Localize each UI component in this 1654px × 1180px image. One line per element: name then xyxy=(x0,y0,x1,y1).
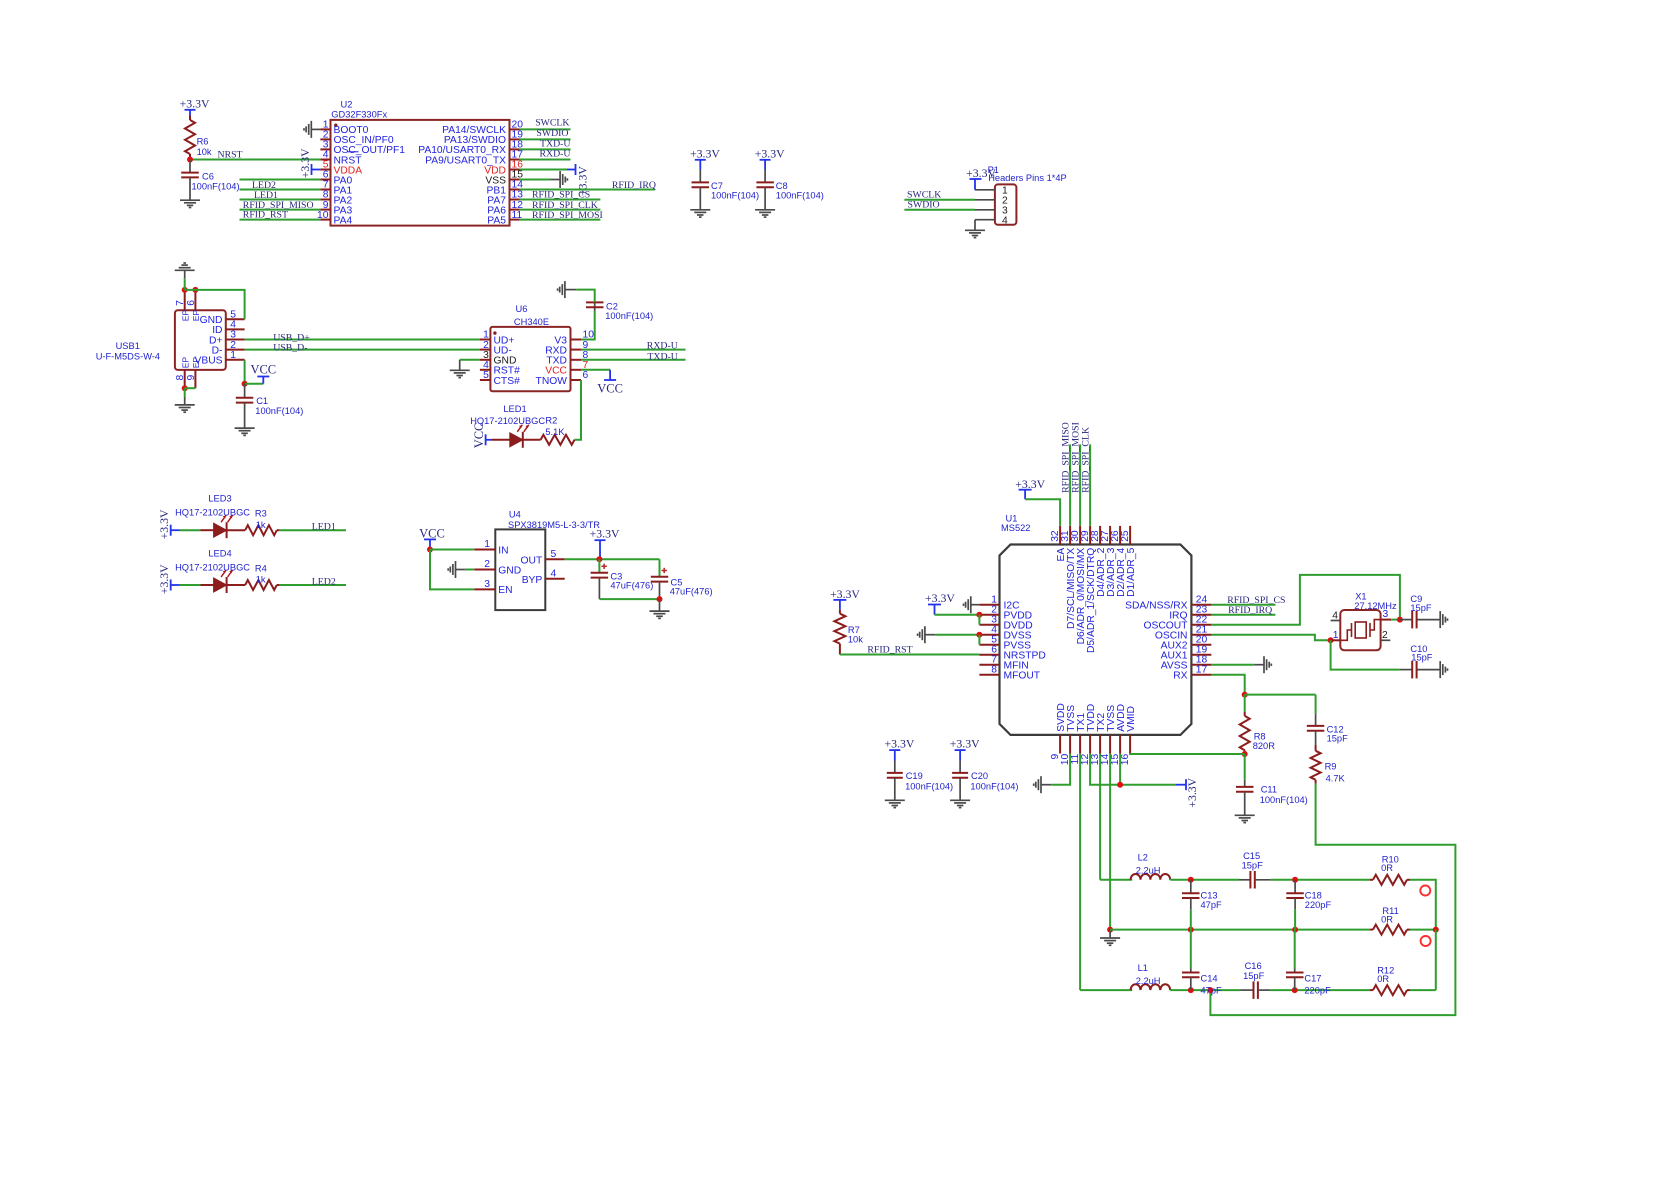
svg-text:15pF: 15pF xyxy=(1242,861,1264,871)
svg-text:R6: R6 xyxy=(197,136,209,146)
svg-text:2.2uH: 2.2uH xyxy=(1136,866,1161,876)
svg-text:EP: EP xyxy=(191,310,201,322)
svg-text:SWDIO: SWDIO xyxy=(908,200,940,211)
svg-text:C19: C19 xyxy=(906,771,923,781)
svg-text:5: 5 xyxy=(483,370,489,381)
svg-text:VCC: VCC xyxy=(597,382,623,396)
svg-text:U-F-M5DS-W-4: U-F-M5DS-W-4 xyxy=(96,352,160,362)
svg-text:0R: 0R xyxy=(1381,863,1393,873)
svg-text:+3.3V: +3.3V xyxy=(884,737,914,751)
svg-text:2: 2 xyxy=(484,559,490,570)
svg-text:GND: GND xyxy=(498,565,521,576)
svg-text:PA5: PA5 xyxy=(487,215,506,226)
svg-text:HQ17-2102UBGC: HQ17-2102UBGC xyxy=(175,508,250,518)
svg-text:RFID_IRQ: RFID_IRQ xyxy=(1228,605,1272,616)
svg-text:USB_D-: USB_D- xyxy=(273,343,307,354)
svg-text:1k: 1k xyxy=(256,575,266,585)
svg-text:+3.3V: +3.3V xyxy=(925,591,955,605)
svg-text:SPX3819M5-L-3-3/TR: SPX3819M5-L-3-3/TR xyxy=(508,520,600,530)
svg-text:100nF(104): 100nF(104) xyxy=(905,781,953,791)
svg-text:5: 5 xyxy=(551,549,557,560)
svg-text:100nF(104): 100nF(104) xyxy=(192,182,240,192)
svg-text:C7: C7 xyxy=(711,181,723,191)
svg-text:6: 6 xyxy=(186,300,197,306)
svg-text:L1: L1 xyxy=(1138,963,1148,973)
svg-text:BYP: BYP xyxy=(522,575,543,586)
svg-text:4: 4 xyxy=(1002,216,1008,227)
svg-text:10k: 10k xyxy=(197,147,212,157)
svg-text:+3.3V: +3.3V xyxy=(1015,477,1045,491)
svg-text:LED2: LED2 xyxy=(312,576,336,587)
svg-text:EP: EP xyxy=(180,357,190,369)
svg-text:+3.3V: +3.3V xyxy=(690,146,720,160)
svg-text:6: 6 xyxy=(583,370,589,381)
svg-text:15pF: 15pF xyxy=(1243,971,1265,981)
svg-text:GD32F330Fx: GD32F330Fx xyxy=(331,109,387,119)
svg-text:R2: R2 xyxy=(545,415,557,425)
svg-text:4: 4 xyxy=(1332,611,1338,622)
svg-text:C6: C6 xyxy=(202,171,214,181)
svg-text:27.12MHz: 27.12MHz xyxy=(1354,601,1397,611)
svg-text:0R: 0R xyxy=(1377,974,1389,984)
svg-text:0R: 0R xyxy=(1381,915,1393,925)
svg-text:R4: R4 xyxy=(255,563,267,573)
svg-text:HQ17-2102UBGC: HQ17-2102UBGC xyxy=(470,416,545,426)
svg-text:2.2uH: 2.2uH xyxy=(1136,976,1161,986)
svg-text:EN: EN xyxy=(498,585,512,596)
svg-text:EP: EP xyxy=(180,310,190,322)
svg-text:47pF: 47pF xyxy=(1201,986,1223,996)
svg-text:NRST: NRST xyxy=(218,149,243,160)
svg-text:100nF(104): 100nF(104) xyxy=(776,191,824,201)
svg-text:100nF(104): 100nF(104) xyxy=(970,781,1018,791)
svg-text:5.1K: 5.1K xyxy=(545,427,565,437)
svg-text:TNOW: TNOW xyxy=(536,376,568,387)
svg-text:17: 17 xyxy=(1196,665,1208,676)
svg-text:+3.3V: +3.3V xyxy=(950,737,980,751)
svg-text:+3.3V: +3.3V xyxy=(966,166,996,180)
svg-text:U2: U2 xyxy=(341,99,353,109)
svg-text:L2: L2 xyxy=(1138,853,1148,863)
svg-text:15pF: 15pF xyxy=(1327,734,1349,744)
svg-text:D1/ADR_5: D1/ADR_5 xyxy=(1126,547,1137,596)
svg-text:VCC: VCC xyxy=(472,423,486,449)
svg-text:EP: EP xyxy=(191,357,201,369)
svg-text:RXD-U: RXD-U xyxy=(647,341,678,352)
svg-text:+3.3V: +3.3V xyxy=(755,146,785,160)
svg-text:C1: C1 xyxy=(256,396,268,406)
svg-text:RFID_RST: RFID_RST xyxy=(867,645,912,656)
svg-text:RFID_IRQ: RFID_IRQ xyxy=(612,180,656,191)
svg-text:1: 1 xyxy=(230,350,236,361)
svg-text:RFID_RST: RFID_RST xyxy=(243,210,288,221)
svg-text:MFOUT: MFOUT xyxy=(1004,671,1041,682)
svg-text:4: 4 xyxy=(551,569,557,580)
svg-text:3: 3 xyxy=(1383,609,1389,620)
svg-text:VMID: VMID xyxy=(1126,706,1137,732)
svg-text:U6: U6 xyxy=(516,304,528,314)
svg-text:C18: C18 xyxy=(1305,890,1322,900)
svg-text:+3.3V: +3.3V xyxy=(590,527,620,541)
svg-text:PA4: PA4 xyxy=(334,215,353,226)
svg-text:100nF(104): 100nF(104) xyxy=(255,406,303,416)
svg-text:2: 2 xyxy=(1382,630,1388,641)
svg-text:HQ17-2102UBGC: HQ17-2102UBGC xyxy=(175,563,250,573)
svg-text:C14: C14 xyxy=(1201,973,1218,983)
svg-text:9: 9 xyxy=(186,375,197,381)
svg-text:RX: RX xyxy=(1173,671,1187,682)
svg-text:15pF: 15pF xyxy=(1410,603,1432,613)
svg-text:16: 16 xyxy=(1120,754,1131,766)
svg-text:RFID_SPI_MOSI: RFID_SPI_MOSI xyxy=(532,210,603,221)
svg-text:Headers Pins 1*4P: Headers Pins 1*4P xyxy=(988,173,1067,183)
svg-text:C15: C15 xyxy=(1243,851,1260,861)
svg-text:X1: X1 xyxy=(1355,591,1366,601)
svg-text:+3.3V: +3.3V xyxy=(298,148,312,178)
svg-text:15pF: 15pF xyxy=(1411,653,1433,663)
svg-text:R3: R3 xyxy=(255,509,267,519)
svg-text:+3.3V: +3.3V xyxy=(1185,777,1199,807)
svg-text:47uF(476): 47uF(476) xyxy=(610,580,653,590)
svg-text:C17: C17 xyxy=(1304,973,1321,983)
svg-text:LED1: LED1 xyxy=(312,522,336,533)
svg-text:8: 8 xyxy=(991,665,997,676)
svg-text:10k: 10k xyxy=(848,634,863,644)
svg-text:+3.3V: +3.3V xyxy=(157,564,171,594)
svg-text:C16: C16 xyxy=(1245,961,1262,971)
svg-text:C13: C13 xyxy=(1201,890,1218,900)
svg-text:LED4: LED4 xyxy=(208,549,231,559)
svg-text:+3.3V: +3.3V xyxy=(157,509,171,539)
svg-text:LED3: LED3 xyxy=(208,494,231,504)
svg-text:8: 8 xyxy=(175,375,186,381)
svg-text:47pF: 47pF xyxy=(1201,900,1223,910)
svg-text:C11: C11 xyxy=(1261,785,1277,795)
svg-text:VCC: VCC xyxy=(250,363,276,377)
svg-text:RXD-U: RXD-U xyxy=(539,149,570,160)
svg-text:MS522: MS522 xyxy=(1001,523,1030,533)
svg-text:TXD-U: TXD-U xyxy=(647,351,677,362)
svg-text:C20: C20 xyxy=(971,771,988,781)
svg-text:CH340E: CH340E xyxy=(514,317,549,327)
svg-text:IN: IN xyxy=(498,545,508,556)
svg-text:1: 1 xyxy=(484,539,490,550)
svg-text:25: 25 xyxy=(1120,530,1131,542)
svg-text:100nF(104): 100nF(104) xyxy=(711,191,759,201)
svg-text:R9: R9 xyxy=(1325,762,1337,772)
svg-text:47uF(476): 47uF(476) xyxy=(670,587,713,597)
svg-text:U4: U4 xyxy=(509,510,521,520)
svg-text:820R: 820R xyxy=(1253,741,1276,751)
svg-text:+3.3V: +3.3V xyxy=(830,587,860,601)
svg-text:C2: C2 xyxy=(606,301,618,311)
svg-text:100nF(104): 100nF(104) xyxy=(1260,795,1308,805)
svg-text:U1: U1 xyxy=(1006,514,1018,524)
svg-text:RFID_SPI_CLK: RFID_SPI_CLK xyxy=(1081,427,1092,493)
svg-text:220pF: 220pF xyxy=(1305,900,1332,910)
svg-text:OUT: OUT xyxy=(521,556,543,567)
svg-text:LED1: LED1 xyxy=(503,404,526,414)
svg-text:100nF(104): 100nF(104) xyxy=(605,311,653,321)
svg-text:3: 3 xyxy=(484,579,490,590)
svg-text:+3.3V: +3.3V xyxy=(180,96,210,110)
svg-text:4.7K: 4.7K xyxy=(1326,774,1346,784)
svg-text:7: 7 xyxy=(175,300,186,306)
svg-text:C8: C8 xyxy=(776,181,788,191)
svg-text:1: 1 xyxy=(1333,630,1339,641)
svg-text:220pF: 220pF xyxy=(1304,986,1331,996)
svg-text:1k: 1k xyxy=(256,520,266,530)
svg-text:CTS#: CTS# xyxy=(494,376,521,387)
svg-text:USB1: USB1 xyxy=(116,341,140,351)
